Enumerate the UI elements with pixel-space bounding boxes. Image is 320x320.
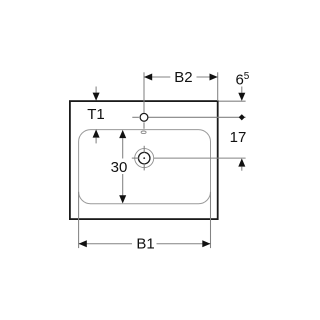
dimension B1: left arrow [79,240,87,247]
tap hole centermark west tick [132,116,139,118]
extension line of tap hole centre to the right [149,116,246,118]
dimension 6.5: diamond marker on tap hole line [239,114,245,120]
dimension B2: extension line right [217,72,219,101]
drain centermark north tick [143,146,145,153]
dimension B2: left arrow [144,74,152,81]
drain centre dot [143,157,145,159]
drain centermark south tick [143,163,145,170]
dimension 30: up arrow [119,130,126,138]
washbasin outer rim (top view) [70,101,218,219]
svg-text:6: 6 [236,71,244,88]
extension line of drain centre to the right [154,157,246,159]
extension line right (basin edge down to B1 dimension) [210,192,212,248]
tap hole centermark south tick [143,122,145,128]
dimension B1: right arrow [202,240,210,247]
svg-text:17: 17 [230,129,247,146]
overflow slot [141,131,146,134]
tap hole [140,113,148,121]
extension line of rim top edge to the right [219,100,246,102]
dimension 30: line upper [122,138,124,159]
dimension B2: right arrow [210,74,218,81]
dimension 30: down arrow [119,195,126,203]
drain outer circle [135,149,154,168]
drain inner circle [138,152,150,164]
T1 dimension: down arrow above rim [95,87,97,93]
svg-text:T1: T1 [87,106,105,123]
svg-text:B2: B2 [174,69,192,86]
dimension 6.5: down arrow [241,87,243,93]
dimension 17: up arrow [238,158,245,166]
dimension 30: line lower [122,174,124,196]
svg-text:B1: B1 [136,235,154,252]
dimension B1: dimension line [79,243,132,245]
dimension B2: dimension line [144,76,170,78]
dimension B2: extension line from tap hole up [143,72,145,112]
svg-text:5: 5 [244,71,250,82]
drain centermark west tick [132,157,139,159]
basin inner bowl outline [79,130,211,204]
svg-text:30: 30 [111,159,128,176]
extension line left (basin edge down to B1 dimension) [78,192,80,248]
T1 dimension: up arrow below basin top edge [93,129,100,137]
